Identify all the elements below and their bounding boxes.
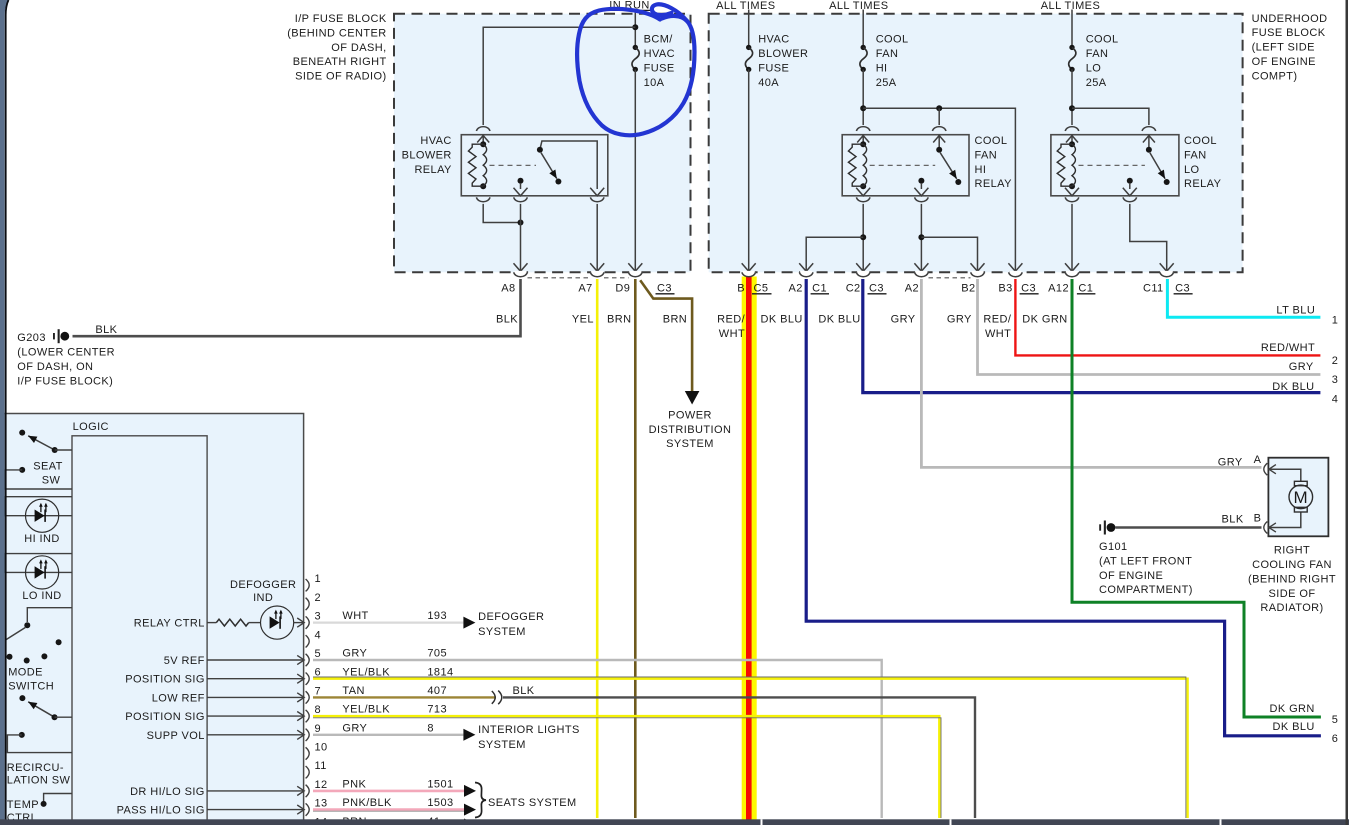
svg-text:RIGHT: RIGHT xyxy=(1274,545,1310,557)
svg-text:MODE: MODE xyxy=(8,666,43,678)
svg-text:IND: IND xyxy=(253,592,273,604)
cool fan lo relay coil feed arc xyxy=(1065,127,1079,131)
svg-text:C3: C3 xyxy=(657,282,672,294)
svg-text:(LOWER CENTER: (LOWER CENTER xyxy=(17,347,115,359)
svg-text:A12: A12 xyxy=(1048,282,1069,294)
svg-text:DR HI/LO SIG: DR HI/LO SIG xyxy=(130,786,205,798)
svg-text:G101: G101 xyxy=(1099,541,1128,553)
svg-text:ALL TIMES: ALL TIMES xyxy=(716,0,775,12)
wire hi coil low to C2/C3 xyxy=(862,204,864,271)
svg-text:7: 7 xyxy=(315,685,322,697)
svg-text:OF DASH, ON: OF DASH, ON xyxy=(17,361,93,373)
blower relay NO contact xyxy=(518,178,524,184)
svg-text:10A: 10A xyxy=(644,77,665,89)
pin 5 wire GRY 705 xyxy=(313,660,882,818)
svg-text:TAN: TAN xyxy=(342,685,364,697)
pin 13 wire black stripe xyxy=(313,810,464,812)
motor wiring inside box xyxy=(1269,469,1301,481)
port POSITION SIG wire to pin 6 xyxy=(207,678,303,680)
pin 13 wire PNK/BLK 1503 xyxy=(313,808,464,811)
svg-text:OF ENGINE: OF ENGINE xyxy=(1099,570,1163,582)
svg-text:ALL TIMES: ALL TIMES xyxy=(829,0,888,12)
cool fan hi relay switch pivot xyxy=(936,147,942,153)
svg-text:C1: C1 xyxy=(1078,282,1093,294)
svg-text:GRY: GRY xyxy=(947,314,972,326)
svg-text:DK BLU: DK BLU xyxy=(1273,721,1315,733)
wire lo coil low to A12 xyxy=(1071,204,1073,271)
wire fuse output D9 xyxy=(634,69,636,270)
node junction A8 xyxy=(518,220,524,226)
svg-text:B3: B3 xyxy=(998,282,1012,294)
svg-text:407: 407 xyxy=(427,685,447,697)
LO IND indicator xyxy=(5,554,72,573)
svg-text:RELAY: RELAY xyxy=(1184,178,1222,190)
svg-text:RED/WHT: RED/WHT xyxy=(1261,342,1315,354)
I/P fuse block box (dashed) xyxy=(394,14,691,273)
svg-text:RADIATOR): RADIATOR) xyxy=(1260,602,1323,614)
dashed link coil to switch xyxy=(490,164,537,166)
svg-text:FUSE: FUSE xyxy=(758,63,789,75)
cool fan hi relay coil feed arc xyxy=(856,127,870,131)
svg-text:1814: 1814 xyxy=(427,666,453,678)
blower relay switch pivot xyxy=(537,147,543,153)
pin 8 wire YEL/BLK 713 xyxy=(313,716,939,818)
svg-text:DK BLU: DK BLU xyxy=(761,314,803,326)
blower relay switch blade xyxy=(541,153,557,179)
svg-text:POWER: POWER xyxy=(668,409,712,421)
svg-text:WHT: WHT xyxy=(342,610,368,622)
blower relay coil feed arc xyxy=(476,127,490,131)
wire fuse lo junction to switch xyxy=(1072,108,1149,125)
svg-text:705: 705 xyxy=(427,648,447,660)
svg-text:SIDE OF RADIO): SIDE OF RADIO) xyxy=(295,71,386,83)
svg-text:ALL TIMES: ALL TIMES xyxy=(1041,0,1100,12)
cool fan hi relay switch feed arc xyxy=(932,127,946,131)
svg-text:FUSE BLOCK: FUSE BLOCK xyxy=(1252,27,1326,39)
svg-text:BLK: BLK xyxy=(513,685,535,697)
cool fan hi relay dashed link xyxy=(870,164,936,166)
svg-text:BRN: BRN xyxy=(607,314,632,326)
wire BLK A8 to G203 xyxy=(73,279,521,336)
relay cool fan hi relay box xyxy=(842,135,969,196)
wire BRN C3 to power distribution xyxy=(640,280,692,391)
pin 6 wire YEL/BLK 1814 xyxy=(313,679,1188,818)
svg-text:RED/: RED/ xyxy=(983,314,1011,326)
svg-text:A2: A2 xyxy=(789,282,803,294)
svg-text:193: 193 xyxy=(427,610,447,622)
fuse cool fan lo relay xyxy=(1069,45,1074,50)
svg-text:HVAC: HVAC xyxy=(644,48,675,60)
svg-text:SWITCH: SWITCH xyxy=(8,681,54,693)
logic connector pin arcs 1-14 xyxy=(306,579,310,830)
svg-text:PASS HI/LO SIG: PASS HI/LO SIG xyxy=(117,805,205,817)
label BCM/HVAC FUSE 10A xyxy=(644,34,675,89)
svg-text:HVAC: HVAC xyxy=(420,135,451,147)
fuse cool fan hi relay xyxy=(861,45,866,50)
label RIGHT COOLING FAN xyxy=(1248,545,1336,615)
svg-text:WHT: WHT xyxy=(985,328,1011,340)
svg-text:GRY: GRY xyxy=(891,314,916,326)
label HVAC BLOWER RELAY xyxy=(402,135,452,176)
svg-text:FAN: FAN xyxy=(1184,149,1207,161)
svg-text:BLOWER: BLOWER xyxy=(402,149,452,161)
wire fuse hi junction to B3 xyxy=(863,108,1015,270)
label I/P FUSE BLOCK xyxy=(287,13,387,83)
ground G203 symbol xyxy=(53,333,55,339)
node junction under fuse cool fan hi relay xyxy=(860,105,866,111)
svg-text:A8: A8 xyxy=(501,282,515,294)
svg-text:GRY: GRY xyxy=(342,722,367,734)
svg-text:COOL: COOL xyxy=(876,34,909,46)
svg-text:SYSTEM: SYSTEM xyxy=(478,739,526,751)
svg-text:GRY: GRY xyxy=(1218,456,1243,468)
seats system brace xyxy=(475,783,486,818)
arcs below relay cool fan lo relay xyxy=(1065,188,1079,196)
mode switch lower wiper xyxy=(19,695,25,701)
cool fan hi relay common contact xyxy=(918,178,924,184)
motor M1 circle xyxy=(1289,485,1313,509)
svg-text:DISTRIBUTION: DISTRIBUTION xyxy=(649,424,732,436)
svg-text:OF ENGINE: OF ENGINE xyxy=(1252,56,1316,68)
mode switch wiper xyxy=(27,608,72,622)
wire coil low side to A8 junction xyxy=(483,204,520,223)
arrow to POWER DISTRIBUTION SYSTEM xyxy=(685,391,700,405)
svg-text:DK GRN: DK GRN xyxy=(1269,703,1314,715)
svg-text:8: 8 xyxy=(427,722,434,734)
splice on pin 7 wire xyxy=(492,691,495,704)
svg-text:A2: A2 xyxy=(905,282,919,294)
svg-text:G203: G203 xyxy=(17,332,46,344)
svg-text:LT BLU: LT BLU xyxy=(1276,304,1315,316)
svg-text:DEFOGGER: DEFOGGER xyxy=(230,579,296,591)
svg-text:SEATS SYSTEM: SEATS SYSTEM xyxy=(488,797,577,809)
blue pen circle around BCM/HVAC fuse xyxy=(577,9,694,135)
svg-text:2: 2 xyxy=(1332,355,1339,367)
pin numbers 1-14 xyxy=(315,573,328,828)
svg-text:FAN: FAN xyxy=(975,149,998,161)
HI IND indicator xyxy=(5,497,72,516)
cool fan lo relay common contact xyxy=(1127,178,1133,184)
svg-text:I/P FUSE BLOCK): I/P FUSE BLOCK) xyxy=(17,375,113,387)
motor brush top xyxy=(1294,481,1307,485)
svg-text:D9: D9 xyxy=(615,282,630,294)
temp ctrl wiper xyxy=(44,794,72,802)
svg-text:SYSTEM: SYSTEM xyxy=(666,438,714,450)
svg-text:BLK: BLK xyxy=(496,314,518,326)
svg-text:11: 11 xyxy=(315,760,327,772)
label COOL FAN HI 25A xyxy=(876,34,909,89)
pin 14 wire BRN 41 xyxy=(313,823,464,826)
fuse BCM/HVAC FUSE 10A xyxy=(633,45,638,50)
svg-text:713: 713 xyxy=(427,704,447,716)
svg-text:4: 4 xyxy=(1332,394,1339,406)
wire hi common to A2 xyxy=(920,204,922,271)
svg-text:LATION SW: LATION SW xyxy=(7,775,71,787)
svg-text:A7: A7 xyxy=(578,282,592,294)
svg-text:2: 2 xyxy=(315,592,322,604)
wire YEL A7 xyxy=(596,279,599,818)
cool fan hi relay relay coil xyxy=(860,141,866,147)
wire RED/WHT highlighted red core xyxy=(746,277,752,826)
svg-text:TEMP: TEMP xyxy=(7,799,39,811)
wire BLK G101 to motor xyxy=(1116,526,1262,529)
svg-text:UNDERHOOD: UNDERHOOD xyxy=(1252,13,1328,25)
node junction at fuse top xyxy=(632,24,638,30)
svg-text:(BEHIND RIGHT: (BEHIND RIGHT xyxy=(1248,573,1336,585)
cool fan lo relay feed wire xyxy=(1071,10,1073,48)
svg-text:YEL: YEL xyxy=(572,314,594,326)
svg-text:FUSE: FUSE xyxy=(644,63,675,75)
cool fan lo relay switch feed arc xyxy=(1142,127,1156,131)
svg-text:B: B xyxy=(1254,512,1262,524)
svg-text:(BEHIND CENTER: (BEHIND CENTER xyxy=(287,27,386,39)
label POWER DISTRIBUTION SYSTEM xyxy=(649,409,732,450)
svg-text:YEL/BLK: YEL/BLK xyxy=(342,704,390,716)
svg-text:LOW REF: LOW REF xyxy=(152,692,205,704)
wire IN RUN feed to BCM/HVAC fuse xyxy=(634,10,636,48)
node junction hi common / B2 xyxy=(918,234,924,240)
svg-text:SIDE OF: SIDE OF xyxy=(1269,588,1316,600)
relay HVAC BLOWER RELAY box xyxy=(461,135,608,196)
wire LT BLU C11/C3 xyxy=(1167,279,1320,317)
svg-text:I/P FUSE BLOCK: I/P FUSE BLOCK xyxy=(295,13,387,25)
wire lo common to C11 xyxy=(1130,204,1167,271)
pin 7 wire TAN 407 xyxy=(313,696,496,698)
port DR HI/LO SIG wire to pin 12 xyxy=(207,790,303,792)
fan switch (top) xyxy=(19,430,25,436)
node junction under fuse cool fan lo relay xyxy=(1069,105,1075,111)
right edge line xyxy=(1346,0,1349,825)
resistor on relay ctrl line xyxy=(207,622,216,624)
blower relay switch feed path xyxy=(540,141,597,189)
label UNDERHOOD FUSE BLOCK xyxy=(1252,13,1328,83)
svg-text:C5: C5 xyxy=(754,282,769,294)
logic module inner box xyxy=(72,436,207,828)
label COOL FAN LO 25A xyxy=(1086,34,1119,89)
relay cool fan lo relay box xyxy=(1051,135,1179,196)
recirculation sw contact xyxy=(19,732,25,738)
wire junction to blower relay coil xyxy=(483,27,635,125)
svg-text:WHT: WHT xyxy=(719,328,745,340)
port 5V REF wire to pin 5 xyxy=(207,659,303,661)
svg-text:C11: C11 xyxy=(1143,282,1164,294)
wire GRY B2 xyxy=(978,279,1321,375)
bottom scrollbar xyxy=(0,819,1349,825)
svg-text:RELAY: RELAY xyxy=(975,178,1013,190)
svg-text:(LEFT SIDE: (LEFT SIDE xyxy=(1252,42,1315,54)
svg-text:SUPP VOL: SUPP VOL xyxy=(147,730,205,742)
port POSITION SIG wire to pin 8 xyxy=(207,715,303,717)
port SUPP VOL wire to pin 9 xyxy=(207,734,303,736)
svg-text:COMPARTMENT): COMPARTMENT) xyxy=(1099,584,1193,596)
left connector dashed strip xyxy=(528,277,591,279)
svg-text:1: 1 xyxy=(1332,315,1339,327)
pin 3 wire WHT 193 xyxy=(313,621,463,623)
svg-text:B2: B2 xyxy=(961,282,975,294)
svg-text:COOL: COOL xyxy=(1086,34,1119,46)
blower relay coil xyxy=(480,141,486,147)
pin 6 wire black stripe xyxy=(313,677,1186,818)
node junction hi coil / A2C1 xyxy=(860,234,866,240)
seat sw contact xyxy=(19,467,25,473)
pin 9 wire GRY 8 xyxy=(313,734,463,736)
label HVAC BLOWER FUSE 40A xyxy=(758,34,808,89)
svg-text:BLK: BLK xyxy=(1222,514,1244,526)
svg-text:FAN: FAN xyxy=(1086,48,1109,60)
left panel strip xyxy=(0,0,9,825)
blue pen tail stroke xyxy=(652,4,687,21)
svg-text:DK BLU: DK BLU xyxy=(818,314,860,326)
svg-text:HI: HI xyxy=(975,164,987,176)
svg-text:SYSTEM: SYSTEM xyxy=(478,626,526,638)
wire BRN D9 xyxy=(634,279,637,818)
svg-text:FAN: FAN xyxy=(876,48,899,60)
wire NO contact to A8 terminal xyxy=(520,204,522,271)
svg-text:C2: C2 xyxy=(846,282,861,294)
svg-text:5: 5 xyxy=(315,648,322,660)
svg-text:RED/: RED/ xyxy=(717,314,745,326)
svg-text:POSITION SIG: POSITION SIG xyxy=(125,711,205,723)
motor pin B connector arc xyxy=(1264,522,1268,534)
svg-text:C1: C1 xyxy=(812,282,827,294)
svg-text:25A: 25A xyxy=(1086,77,1107,89)
svg-text:40A: 40A xyxy=(758,77,779,89)
cool fan lo relay relay coil xyxy=(1069,141,1075,147)
defogger indicator LED xyxy=(261,606,294,639)
svg-text:C3: C3 xyxy=(1021,282,1036,294)
svg-text:M: M xyxy=(1294,488,1309,507)
svg-text:COOL: COOL xyxy=(1184,135,1217,147)
svg-text:DK BLU: DK BLU xyxy=(1272,381,1314,393)
svg-text:RELAY: RELAY xyxy=(414,164,452,176)
right cooling fan motor box xyxy=(1268,458,1328,537)
svg-text:8: 8 xyxy=(315,704,322,716)
cool fan hi relay feed wire xyxy=(862,10,864,48)
svg-text:COOL: COOL xyxy=(975,135,1008,147)
svg-text:10: 10 xyxy=(315,742,328,754)
svg-text:B: B xyxy=(737,282,745,294)
cool fan lo relay switch blade xyxy=(1150,153,1165,179)
svg-text:POSITION SIG: POSITION SIG xyxy=(125,674,205,686)
svg-text:(AT LEFT FRONT: (AT LEFT FRONT xyxy=(1099,555,1192,567)
ground G101 symbol xyxy=(1099,524,1101,530)
svg-text:LO: LO xyxy=(1086,63,1102,75)
svg-text:PNK: PNK xyxy=(342,779,366,791)
svg-text:YEL/BLK: YEL/BLK xyxy=(342,666,390,678)
svg-text:1: 1 xyxy=(315,573,322,585)
svg-text:LO: LO xyxy=(1184,164,1200,176)
svg-text:COMPT): COMPT) xyxy=(1252,70,1298,82)
svg-text:BLK: BLK xyxy=(95,324,117,336)
motor brush bottom xyxy=(1294,507,1307,512)
svg-text:4: 4 xyxy=(315,629,322,641)
HVAC control assembly box xyxy=(4,414,304,829)
mode switch contacts xyxy=(7,654,13,660)
svg-text:LOGIC: LOGIC xyxy=(73,421,109,433)
wire RED/WHT B3/C3 xyxy=(1015,279,1320,355)
svg-text:9: 9 xyxy=(315,723,322,735)
cool fan lo relay switch pivot xyxy=(1146,147,1152,153)
wire DK BLU C2/C3 xyxy=(863,279,1321,393)
pin 12 wire PNK 1501 xyxy=(313,790,464,793)
wire to A2/C1 xyxy=(806,237,863,271)
wire GRY A2 to motor xyxy=(921,279,1261,467)
svg-text:6: 6 xyxy=(1332,733,1339,745)
svg-text:A: A xyxy=(1254,454,1262,466)
svg-text:RELAY CTRL: RELAY CTRL xyxy=(134,618,205,630)
svg-text:3: 3 xyxy=(1332,374,1339,386)
pin 8 wire black stripe xyxy=(313,718,941,818)
port LOW REF wire to pin 7 xyxy=(207,696,303,698)
svg-text:DK GRN: DK GRN xyxy=(1022,314,1067,326)
svg-text:COOLING FAN: COOLING FAN xyxy=(1252,559,1332,571)
svg-text:GRY: GRY xyxy=(342,648,367,660)
svg-text:25A: 25A xyxy=(876,77,897,89)
svg-text:OF DASH,: OF DASH, xyxy=(331,42,386,54)
label G101 xyxy=(1099,541,1193,596)
svg-text:INTERIOR LIGHTS: INTERIOR LIGHTS xyxy=(478,724,580,736)
svg-text:5V REF: 5V REF xyxy=(164,655,205,667)
fuse HVAC BLOWER FUSE 40A xyxy=(746,45,751,50)
pin 7 wire BLK continuation xyxy=(503,697,975,818)
wire RED/WHT highlighted (B/C5) yellow band xyxy=(742,277,757,826)
svg-text:SEAT: SEAT xyxy=(33,460,63,472)
svg-text:LO IND: LO IND xyxy=(22,590,61,602)
motor pin A connector arc xyxy=(1264,463,1268,475)
svg-text:12: 12 xyxy=(315,779,328,791)
svg-text:3: 3 xyxy=(315,611,322,623)
svg-text:13: 13 xyxy=(315,798,328,810)
svg-text:BENEATH RIGHT: BENEATH RIGHT xyxy=(293,56,387,68)
wire blower fuse to B terminal xyxy=(748,69,750,270)
wire DK BLU A2/C1 xyxy=(806,279,1321,736)
svg-text:HI: HI xyxy=(876,63,888,75)
svg-text:6: 6 xyxy=(315,667,322,679)
arcs below blower relay xyxy=(476,197,490,201)
wire to B2 xyxy=(921,237,977,271)
right connector dashed strip xyxy=(929,277,971,279)
Underhood fuse block box (dashed) xyxy=(709,14,1243,273)
svg-text:PNK/BLK: PNK/BLK xyxy=(342,797,392,809)
svg-text:DEFOGGER: DEFOGGER xyxy=(478,611,544,623)
svg-text:HI IND: HI IND xyxy=(24,533,60,545)
arcs below relay cool fan hi relay xyxy=(856,188,870,196)
label COOL FAN LO RELAY xyxy=(1184,135,1222,190)
svg-text:1503: 1503 xyxy=(427,797,453,809)
svg-text:BCM/: BCM/ xyxy=(644,34,674,46)
svg-text:BRN: BRN xyxy=(663,314,688,326)
label COOL FAN HI RELAY xyxy=(975,135,1013,190)
cool fan hi relay switch blade xyxy=(940,153,957,179)
HVAC BLOWER FUSE circuit xyxy=(748,10,750,48)
svg-text:RECIRCU-: RECIRCU- xyxy=(7,762,64,774)
svg-text:C3: C3 xyxy=(869,282,884,294)
wire DK GRN A12/C1 xyxy=(1072,279,1321,717)
svg-text:1501: 1501 xyxy=(427,779,453,791)
wire switch to A7 terminal xyxy=(596,204,598,271)
svg-text:SW: SW xyxy=(42,475,61,487)
svg-text:BLOWER: BLOWER xyxy=(758,48,808,60)
svg-text:GRY: GRY xyxy=(1289,361,1314,373)
svg-text:5: 5 xyxy=(1332,714,1339,726)
cool fan lo relay dashed link xyxy=(1079,164,1145,166)
svg-text:C3: C3 xyxy=(1175,282,1190,294)
svg-text:HVAC: HVAC xyxy=(758,34,789,46)
port PASS HI/LO SIG wire to pin 13 xyxy=(207,809,303,811)
